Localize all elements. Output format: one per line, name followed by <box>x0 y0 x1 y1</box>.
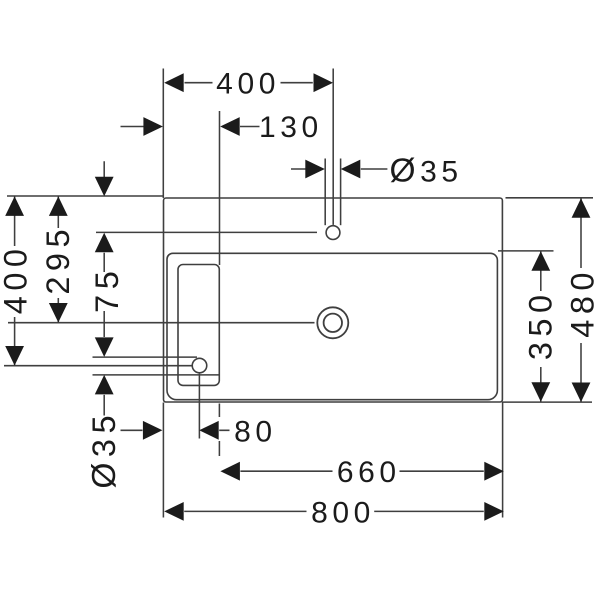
ext hole center vertical <box>198 374 200 439</box>
ext faucet center vertical <box>332 69 334 225</box>
arrow 295 down <box>49 303 68 323</box>
ext drain center horizontal <box>8 322 315 324</box>
ext hole tangent bottom <box>93 374 220 376</box>
arrow 800 left <box>164 502 184 521</box>
svg-text:350: 350 <box>522 289 558 360</box>
arrow 400 top right <box>314 73 334 92</box>
ext faucet tangent left <box>324 159 326 226</box>
arrow d35 hole outside top <box>95 337 114 357</box>
svg-text:400: 400 <box>216 68 280 101</box>
arrow 350 down <box>531 382 550 402</box>
arrow 350 up <box>531 251 550 270</box>
bowl outline <box>167 253 497 399</box>
arrow 660 left <box>220 462 240 481</box>
arrow 400 left up <box>5 196 24 216</box>
arrow d35 faucet right <box>341 160 361 179</box>
dim line 350 <box>540 251 542 401</box>
small hole <box>192 358 207 373</box>
arrow 75 outside top <box>95 177 114 197</box>
drain outer <box>317 307 348 338</box>
ext faucet center horizontal <box>96 231 317 233</box>
arrow 130 outside right <box>220 117 240 136</box>
ext faucet tangent right <box>340 159 342 226</box>
ext bowl top right horizontal <box>498 250 554 252</box>
svg-text:Ø35: Ø35 <box>389 152 462 189</box>
ext right bottom horizontal <box>502 401 592 403</box>
arrow 80 outside left <box>143 421 163 440</box>
ext right top horizontal <box>506 197 594 199</box>
dim line 80 <box>121 429 230 431</box>
ext top-left vertical <box>162 69 164 199</box>
svg-text:130: 130 <box>259 111 323 144</box>
dim line 800 <box>184 510 484 512</box>
svg-text:800: 800 <box>311 496 375 529</box>
dim line 295 <box>57 196 59 322</box>
ext right bottom vertical <box>502 402 504 518</box>
drain inner <box>324 314 342 332</box>
dim line 400 top <box>185 82 313 84</box>
arrow 400 top left <box>164 73 184 92</box>
svg-text:Ø35: Ø35 <box>86 410 123 489</box>
ext left top horizontal <box>7 195 163 197</box>
arrow 295 up <box>49 196 68 216</box>
ext left bottom vertical <box>162 403 164 518</box>
arrow 480 down <box>572 383 591 403</box>
arrow d35 hole outside bottom <box>95 375 114 395</box>
dim line 480 <box>580 198 582 401</box>
svg-text:80: 80 <box>234 416 277 449</box>
arrow 800 right <box>484 502 504 521</box>
basin outline <box>164 198 503 402</box>
arrow 130 outside left <box>143 117 163 136</box>
dim line 75 column <box>103 161 105 415</box>
svg-text:660: 660 <box>337 456 401 489</box>
arrow 80 outside right <box>199 421 219 440</box>
ext hole tangent top <box>93 356 198 358</box>
arrow 660 right <box>484 462 504 481</box>
arrow 75 outside bottom <box>95 233 114 253</box>
svg-text:480: 480 <box>565 267 600 338</box>
arrow d35 faucet left <box>305 160 325 179</box>
dim line 400 left <box>14 196 16 365</box>
arrow 400 left down <box>5 346 24 366</box>
faucet hole <box>326 226 340 240</box>
dim line d35 faucet <box>291 168 387 170</box>
svg-text:400: 400 <box>0 244 34 315</box>
dim line 660 <box>240 470 483 472</box>
ext bowl-left vertical <box>219 111 221 265</box>
dim line 130 <box>121 126 260 128</box>
svg-text:295: 295 <box>40 224 76 295</box>
shelf outline <box>178 265 219 386</box>
svg-text:75: 75 <box>89 266 125 313</box>
ext bowl-left dashed <box>218 404 220 457</box>
ext hole center horizontal <box>4 365 192 367</box>
arrow 480 up <box>572 198 591 218</box>
